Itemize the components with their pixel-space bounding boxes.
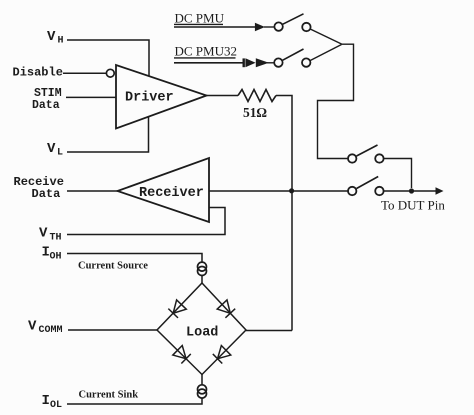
wire VTH to receiver reference input: [67, 208, 225, 235]
svg-text:To DUT Pin: To DUT Pin: [381, 198, 445, 213]
svg-text:Disable: Disable: [13, 66, 63, 80]
current sink I2: [198, 385, 207, 398]
label Current Source: [78, 261, 148, 272]
svg-text:Receiver: Receiver: [139, 186, 204, 201]
wire S1 output diagonal to junction: [310, 29, 341, 44]
diode D1 top-left: [168, 300, 186, 318]
node VCOMM label: [28, 319, 63, 336]
svg-text:51Ω: 51Ω: [243, 105, 268, 120]
wire IOH to current source: [67, 254, 202, 263]
node IOH label: [42, 245, 62, 263]
wire S4 to DUT pin with arrowhead: [384, 187, 444, 195]
svg-text:Data: Data: [32, 187, 61, 201]
resistor R1 51 ohm: [238, 90, 276, 121]
diode D2 top-right: [217, 300, 235, 318]
wire PMU bus stepping down to switch S3: [318, 44, 354, 158]
node Receive Data label: [14, 175, 64, 201]
svg-text:V: V: [47, 29, 56, 45]
svg-text:Data: Data: [32, 99, 60, 112]
diode D3 bottom-left: [173, 346, 191, 364]
wire driver output to resistor: [207, 95, 239, 97]
wire resistor to main node, vertical bus down: [276, 96, 292, 331]
node Disable label: [13, 66, 63, 80]
inverter bubble on driver disable input: [106, 69, 114, 77]
node STIM Data label: [32, 87, 62, 112]
svg-text:L: L: [57, 148, 63, 159]
wire current source to load top: [201, 276, 203, 284]
svg-text:OH: OH: [50, 252, 62, 263]
net DC PMU label: [174, 11, 225, 26]
wire Receive Data to receiver output: [67, 190, 118, 192]
node VTH label: [39, 226, 62, 244]
switch S1 (DC PMU): [274, 14, 310, 31]
svg-text:Load: Load: [186, 326, 218, 341]
node VH label: [47, 29, 64, 47]
junction DUT node: [409, 188, 414, 193]
node To DUT Pin label: [381, 198, 445, 213]
op-amp U1 Driver: [116, 65, 207, 129]
svg-text:V: V: [47, 141, 56, 157]
net DC PMU32 label: [174, 44, 237, 59]
svg-text:Current Sink: Current Sink: [79, 390, 139, 401]
node IOL label: [42, 393, 63, 411]
svg-text:OL: OL: [50, 400, 62, 411]
wire receiver input from main line: [209, 190, 348, 192]
diode D4 bottom-right: [213, 346, 231, 364]
load bridge outline: [157, 283, 246, 375]
wire DC PMU with arrowhead: [174, 23, 274, 32]
svg-text:COMM: COMM: [39, 325, 63, 336]
wire VH to driver top: [67, 40, 149, 77]
op-amp U2 Receiver: [118, 158, 210, 222]
svg-text:Driver: Driver: [125, 91, 174, 106]
wire Disable to bubble: [63, 72, 106, 74]
svg-text:I: I: [42, 393, 50, 409]
wire DC PMU32 with double arrowhead: [174, 58, 274, 67]
node VL label: [47, 141, 63, 159]
wire load bottom to current sink: [201, 375, 203, 386]
wire VL to driver bottom: [67, 117, 149, 152]
svg-text:Current Source: Current Source: [78, 261, 148, 272]
svg-text:V: V: [39, 226, 48, 242]
current source I1: [198, 262, 207, 275]
svg-text:DC PMU: DC PMU: [175, 11, 225, 26]
svg-text:H: H: [58, 36, 64, 47]
switch S3 (PMU connect): [348, 145, 384, 163]
wire S2 output diagonal to junction: [310, 45, 342, 61]
svg-text:TH: TH: [50, 233, 62, 244]
svg-text:DC PMU32: DC PMU32: [175, 44, 238, 59]
label Current Sink: [79, 390, 139, 401]
svg-text:V: V: [28, 319, 37, 335]
wire STIM Data to driver input: [66, 96, 116, 98]
junction main node: [289, 188, 294, 193]
switch S2 (DC PMU32): [274, 49, 310, 67]
wire S3 to DUT node: [384, 159, 412, 189]
wire load right to main bus: [246, 330, 292, 332]
switch S4 (DUT connect): [348, 177, 384, 196]
wire current sink to IOL: [67, 398, 202, 404]
wire VCOMM to load left: [68, 329, 157, 331]
